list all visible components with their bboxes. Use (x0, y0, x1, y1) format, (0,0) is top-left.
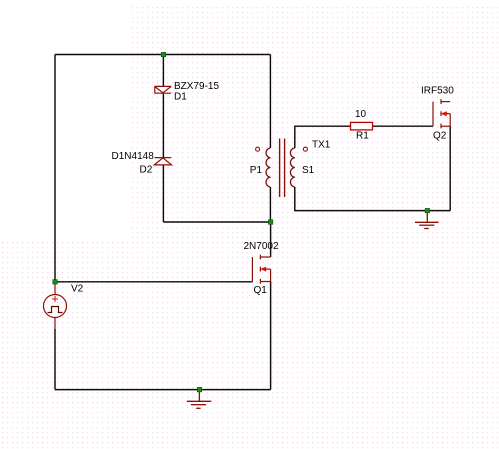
ground (bottom rail) (187, 392, 212, 408)
svg-text:Q2: Q2 (433, 131, 447, 142)
diode D2 (154, 158, 171, 165)
transformer secondary coil S1 (290, 148, 294, 187)
transformer P1 phase dot (256, 147, 260, 151)
source V2 (44, 282, 67, 329)
resistor R1 (351, 122, 373, 129)
transformer TX1 core (280, 139, 285, 198)
junction node at secondary ground (425, 208, 430, 213)
wire diode branch top (162, 55, 164, 87)
zener diode D1 (155, 86, 172, 93)
wire left rail upper (54, 55, 56, 283)
Q2 body arrow (441, 111, 447, 116)
svg-text:2N7002: 2N7002 (244, 241, 279, 252)
transformer primary coil P1 (266, 148, 270, 187)
wire below D2 (162, 165, 164, 222)
svg-text:R1: R1 (356, 131, 369, 142)
svg-text:BZX79-15: BZX79-15 (174, 81, 219, 92)
junction node at ground rail (197, 387, 202, 392)
svg-text:IRF530: IRF530 (421, 86, 454, 97)
transistor Q2 (IRF530 NMOS) (433, 99, 450, 128)
svg-text:V2: V2 (71, 284, 84, 295)
svg-text:D1: D1 (174, 92, 187, 103)
wire Q1 source down (270, 282, 272, 390)
junction node at V2 top (53, 280, 58, 285)
wire primary top drop (269, 55, 271, 149)
wire top rail (55, 54, 270, 56)
wire Q2 source down (449, 126, 451, 210)
Q1 body arrow (260, 267, 266, 272)
junction node at primary bottom (268, 220, 273, 225)
wire between D1 and D2 (162, 93, 164, 157)
svg-text:10: 10 (355, 109, 367, 120)
wire Q1 gate run (55, 281, 252, 283)
wire secondary bottom (295, 187, 450, 211)
wire bottom rail (55, 389, 271, 391)
wire Q1 drain up (270, 222, 272, 257)
transformer S1 phase dot (303, 147, 307, 151)
svg-text:Q1: Q1 (254, 285, 268, 296)
svg-text:D1N4148: D1N4148 (112, 151, 155, 162)
wire secondary top (295, 126, 351, 148)
ground (secondary) (415, 213, 439, 229)
transistor Q1 (2N7002 NMOS) (252, 255, 270, 284)
wire cross at node (163, 221, 270, 223)
wire primary bottom drop (269, 187, 271, 222)
junction node at diode branch top (161, 52, 166, 57)
svg-text:P1: P1 (250, 165, 263, 176)
wire left rail lower (54, 329, 56, 390)
svg-text:TX1: TX1 (312, 140, 331, 151)
svg-text:S1: S1 (302, 165, 315, 176)
svg-text:D2: D2 (140, 165, 153, 176)
wire R1 to Q2 gate (373, 125, 434, 127)
